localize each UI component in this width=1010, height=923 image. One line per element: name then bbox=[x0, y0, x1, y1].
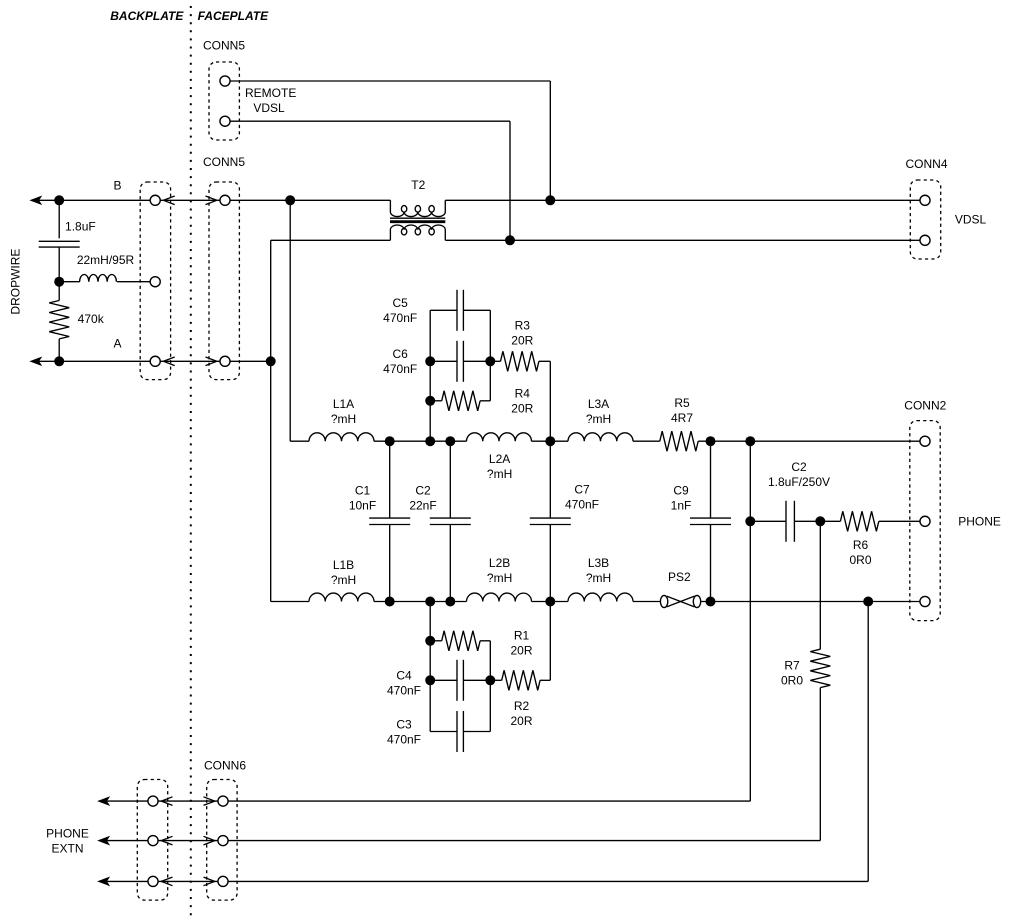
connector CONN6 backplate pin 1 bbox=[148, 796, 158, 806]
junction R1 left bbox=[425, 636, 435, 646]
wire left column of C5/C6/R4 block bbox=[429, 310, 431, 441]
svg-text:22nF: 22nF bbox=[409, 498, 436, 512]
wire L2B to L3B segment bbox=[532, 601, 569, 603]
connector CONN6 backplate pin 3 bbox=[148, 876, 158, 886]
arrow pair between CONN5 pins row B bbox=[163, 196, 174, 205]
svg-text:C5: C5 bbox=[393, 296, 409, 310]
transformer T2 core bbox=[390, 217, 445, 219]
wire C4 node to R2 bbox=[490, 679, 501, 681]
svg-text:470nF: 470nF bbox=[383, 311, 417, 325]
svg-text:L1B: L1B bbox=[333, 558, 354, 572]
wire right column of R1/C4/C3 block bbox=[489, 641, 491, 732]
wire PS2 to CONN2 pin 3 bbox=[701, 601, 921, 603]
wire CONN5 remote pin1 to node above T2 bbox=[225, 80, 550, 82]
connector CONN4 pin 1 bbox=[920, 195, 930, 205]
arrow pair between CONN6 pins row 3 bbox=[161, 877, 172, 886]
wire C2 top lead bbox=[449, 441, 451, 518]
junction dropwire cap/inductor bbox=[54, 277, 64, 287]
wire C5 left lead bbox=[430, 309, 457, 311]
connector CONN4 pin 2 bbox=[920, 235, 930, 245]
arrow pair between CONN6 pins row 1 bbox=[161, 797, 172, 806]
wire C6 node to R3 bbox=[490, 360, 500, 362]
svg-text:470nF: 470nF bbox=[387, 732, 421, 746]
wire L1B row start bbox=[271, 601, 309, 603]
connector CONN5 backplate pin middle bbox=[150, 277, 160, 287]
transformer T2 primary loops bbox=[401, 206, 406, 213]
connector CONN2 dashed box bbox=[910, 421, 940, 621]
capacitor C1 10nF bbox=[369, 517, 410, 519]
wire left column of R1/C4/C3 block bbox=[429, 602, 431, 732]
wire CONN6 top row to faceplate pin bbox=[223, 800, 750, 802]
arrow pair between CONN6 pins row 2 bbox=[161, 836, 172, 845]
svg-text:C1: C1 bbox=[355, 483, 371, 497]
svg-text:C2: C2 bbox=[415, 483, 431, 497]
capacitor C2 1.8uF/250V bbox=[785, 501, 787, 542]
svg-text:R6: R6 bbox=[853, 538, 869, 552]
capacitor C4 470nF bbox=[456, 660, 458, 701]
wire L1A to L2A segment bbox=[374, 440, 467, 442]
svg-text:L2A: L2A bbox=[489, 452, 510, 466]
wire L3A to R5 bbox=[633, 440, 660, 442]
wire CONN6 top row between pins and arrow left bbox=[106, 800, 223, 802]
svg-text:C4: C4 bbox=[396, 668, 412, 682]
svg-text:470nF: 470nF bbox=[565, 497, 599, 511]
svg-text:CONN2: CONN2 bbox=[904, 398, 946, 412]
capacitor 1.8uF (dropwire) bbox=[39, 240, 80, 242]
junction node A bbox=[266, 356, 276, 366]
junction dropwire B bbox=[54, 195, 64, 205]
svg-text:VDSL: VDSL bbox=[955, 212, 987, 226]
svg-text:10nF: 10nF bbox=[349, 498, 376, 512]
svg-text:FACEPLATE: FACEPLATE bbox=[198, 9, 269, 23]
connector CONN5 faceplate pin A bbox=[220, 356, 230, 366]
connector CONN6 faceplate pin 3 bbox=[218, 876, 228, 886]
svg-text:L3B: L3B bbox=[588, 556, 609, 570]
svg-text:470k: 470k bbox=[78, 312, 105, 326]
svg-text:20R: 20R bbox=[511, 402, 533, 416]
junction R4 left bbox=[425, 396, 435, 406]
svg-text:BACKPLATE: BACKPLATE bbox=[110, 9, 184, 23]
connector CONN5 (remote) dashed box bbox=[209, 62, 239, 140]
wire C7 bottom lead bbox=[549, 525, 551, 602]
svg-text:1.8uF/250V: 1.8uF/250V bbox=[768, 475, 830, 489]
arrow B row pointing left bbox=[31, 196, 41, 204]
wire junction to resistor 470k bbox=[58, 282, 60, 301]
svg-text:C9: C9 bbox=[673, 483, 689, 497]
capacitor C2 22nF bbox=[430, 517, 471, 519]
junction row2 C9/PS2 bbox=[706, 597, 716, 607]
svg-text:DROPWIRE: DROPWIRE bbox=[9, 249, 23, 315]
resistor R2 20R bbox=[502, 670, 540, 690]
wire L1B to L2B segment bbox=[374, 601, 467, 603]
wire C3 right lead bbox=[463, 731, 490, 733]
capacitor C6 470nF bbox=[456, 341, 458, 382]
connector CONN6 faceplate pin 1 bbox=[218, 796, 228, 806]
inductor L2A ?mH bbox=[467, 433, 532, 441]
junction row1 phone column bbox=[745, 436, 755, 446]
junction row2 C2 bbox=[445, 597, 455, 607]
wire A row from dropwire to node A junction bbox=[38, 360, 271, 362]
svg-text:R2: R2 bbox=[514, 699, 530, 713]
transformer T2 secondary loops bbox=[401, 228, 406, 235]
svg-text:VDSL: VDSL bbox=[253, 101, 285, 115]
divider between backplate and faceplate (dotted line) bbox=[190, 6, 192, 921]
svg-text:4R7: 4R7 bbox=[671, 411, 693, 425]
wire C4 left lead bbox=[430, 679, 457, 681]
wire B row from dropwire to transformer T2 bbox=[38, 199, 390, 201]
svg-text:R4: R4 bbox=[515, 387, 531, 401]
connector CONN5 faceplate dashed box bbox=[209, 182, 239, 380]
wire node B junction vertical down to L1A row bbox=[289, 200, 291, 441]
arrow A row pointing left bbox=[31, 357, 41, 365]
inductor L2B ?mH bbox=[467, 593, 532, 601]
svg-text:?mH: ?mH bbox=[331, 573, 356, 587]
inductor L3A ?mH bbox=[568, 433, 633, 441]
svg-text:EXTN: EXTN bbox=[51, 841, 83, 855]
inductor L3B ?mH bbox=[568, 593, 633, 601]
wire L1A row start bbox=[290, 440, 309, 442]
svg-text:1.8uF: 1.8uF bbox=[65, 220, 96, 234]
wire R7 column top bbox=[819, 521, 821, 649]
svg-text:B: B bbox=[113, 178, 121, 192]
transformer T2 secondary winding bbox=[390, 225, 445, 240]
junction row1 C7/R3 column bbox=[545, 436, 555, 446]
svg-text:?mH: ?mH bbox=[487, 571, 512, 585]
wire R4 right lead bbox=[480, 400, 490, 402]
junction row1 C5 column bbox=[425, 436, 435, 446]
connector CONN6 faceplate pin 2 bbox=[218, 836, 228, 846]
connector CONN5 remote pin 1 bbox=[220, 76, 230, 86]
wire R1 right lead bbox=[480, 640, 490, 642]
resistor 470k bbox=[49, 301, 69, 339]
wire R6 to CONN2 pin 2 bbox=[879, 520, 921, 522]
capacitor C5 470nF bbox=[456, 290, 458, 331]
junction row1 C9 bbox=[706, 436, 716, 446]
wire 22mH/95R branch to backplate CONN5 middle pin bbox=[59, 281, 80, 283]
svg-text:CONN6: CONN6 bbox=[204, 758, 246, 772]
svg-text:470nF: 470nF bbox=[383, 362, 417, 376]
svg-text:A: A bbox=[113, 337, 121, 351]
wire C2 1.8uF right lead to R6 bbox=[794, 520, 840, 522]
svg-text:C7: C7 bbox=[574, 482, 590, 496]
wire node A column vertical down to L1B row bbox=[270, 240, 272, 601]
resistor R6 0R0 bbox=[840, 511, 878, 531]
svg-text:?mH: ?mH bbox=[487, 467, 512, 481]
wire capacitor 1.8uF to junction bbox=[58, 247, 60, 282]
svg-text:CONN5: CONN5 bbox=[203, 39, 245, 53]
connector CONN5 faceplate pin B bbox=[220, 195, 230, 205]
wire C5 right lead bbox=[463, 309, 490, 311]
wire C3 left lead bbox=[430, 731, 457, 733]
connector CONN2 pin 1 bbox=[920, 436, 930, 446]
svg-text:?mH: ?mH bbox=[586, 412, 611, 426]
svg-text:20R: 20R bbox=[510, 643, 532, 657]
junction C6 left bbox=[425, 356, 435, 366]
svg-text:0R0: 0R0 bbox=[781, 673, 803, 687]
wire right column of C5/C6/R4 block bbox=[489, 310, 491, 401]
wire C2 1.8uF left lead bbox=[750, 520, 786, 522]
transformer T2 primary winding bbox=[390, 200, 445, 216]
svg-text:0R0: 0R0 bbox=[849, 553, 871, 567]
svg-text:20R: 20R bbox=[511, 333, 533, 347]
wire C2 bottom lead bbox=[449, 525, 451, 602]
svg-text:T2: T2 bbox=[411, 178, 425, 192]
wire R4 left lead bbox=[430, 400, 442, 402]
resistor R1 20R bbox=[442, 631, 480, 651]
svg-text:CONN5: CONN5 bbox=[203, 155, 245, 169]
junction C4 left bbox=[425, 675, 435, 685]
arrow pair between CONN5 pins row A bbox=[163, 357, 174, 366]
wire R1 left lead bbox=[430, 640, 442, 642]
wire column from row1 through C2/R6 node down to CONN6 top row bbox=[749, 441, 751, 801]
connector CONN6 faceplate dashed box bbox=[207, 780, 237, 901]
svg-text:R7: R7 bbox=[784, 658, 800, 672]
wire CONN5 remote pin2 to node above VDSL lower wire bbox=[225, 120, 510, 122]
junction row1 C2 bbox=[445, 436, 455, 446]
junction row2 C7/R2 column bbox=[545, 597, 555, 607]
surge protector PS2 bbox=[660, 595, 667, 607]
connector CONN2 pin 2 bbox=[920, 516, 930, 526]
connector CONN5 remote pin 2 bbox=[220, 116, 230, 126]
wire C6 left lead bbox=[430, 360, 457, 362]
svg-text:C6: C6 bbox=[393, 347, 409, 361]
svg-text:L3A: L3A bbox=[588, 397, 609, 411]
wire column from row2 down to CONN6 bottom row bbox=[867, 602, 869, 882]
resistor R5 4R7 bbox=[660, 431, 698, 451]
junction mid row phone column bbox=[745, 516, 755, 526]
connector CONN6 backplate dashed box bbox=[137, 780, 167, 901]
wire resistor 470k to A row bbox=[58, 339, 60, 361]
svg-text:C3: C3 bbox=[396, 717, 412, 731]
wire C6 right lead bbox=[463, 360, 490, 362]
svg-text:C2: C2 bbox=[791, 460, 807, 474]
junction row2 C4 column bbox=[425, 597, 435, 607]
inductor 22mH/95R bbox=[80, 275, 117, 282]
connector CONN2 pin 3 bbox=[920, 596, 930, 606]
resistor R7 0R0 bbox=[810, 649, 830, 687]
wire R3 to column at 550 bbox=[539, 360, 550, 362]
junction T2 top right / remote vdsl bbox=[545, 195, 555, 205]
wire L2A to L3A segment bbox=[532, 440, 569, 442]
wire CONN6 middle row between pins and arrow left bbox=[106, 840, 223, 842]
svg-text:?mH: ?mH bbox=[331, 412, 356, 426]
wire B row from T2 to CONN4 pin 1 bbox=[445, 199, 921, 201]
wire R2 to column at 550 bbox=[540, 679, 550, 681]
svg-text:PS2: PS2 bbox=[668, 570, 691, 584]
wire T2 secondary to node A column bbox=[271, 239, 391, 241]
wire C1 top lead bbox=[389, 441, 391, 518]
inductor L1B ?mH bbox=[309, 593, 374, 601]
wire CONN6 bottom row between pins and arrow left bbox=[106, 880, 223, 882]
wire C7 top lead bbox=[549, 441, 551, 518]
svg-text:L1A: L1A bbox=[333, 397, 354, 411]
svg-text:REMOTE: REMOTE bbox=[245, 86, 296, 100]
connector CONN6 backplate pin 2 bbox=[148, 836, 158, 846]
resistor R3 20R bbox=[501, 351, 539, 371]
junction node B bbox=[285, 195, 295, 205]
wire R5 to CONN2 pin 1 bbox=[698, 440, 921, 442]
capacitor C7 470nF bbox=[530, 517, 571, 519]
wire VDSL lower row from T2 to CONN4 pin 2 bbox=[445, 239, 921, 241]
svg-text:L2B: L2B bbox=[489, 556, 510, 570]
svg-text:PHONE: PHONE bbox=[958, 515, 1001, 529]
svg-text:R5: R5 bbox=[674, 396, 690, 410]
resistor R4 20R bbox=[442, 391, 480, 411]
connector CONN5 backplate pin A bbox=[150, 356, 160, 366]
svg-text:R3: R3 bbox=[515, 318, 531, 332]
inductor L1A ?mH bbox=[309, 433, 374, 441]
capacitor C3 470nF bbox=[456, 711, 458, 752]
wire C9 bottom lead bbox=[710, 525, 712, 602]
capacitor C9 1nF bbox=[690, 517, 731, 519]
svg-text:470nF: 470nF bbox=[387, 683, 421, 697]
wire R7 column down to CONN6 middle row bbox=[819, 688, 821, 841]
junction row2 C1 bbox=[385, 597, 395, 607]
svg-text:R1: R1 bbox=[514, 628, 530, 642]
junction row2 phone extn column bbox=[863, 597, 873, 607]
wire L3B to PS2 bbox=[633, 601, 660, 603]
connector CONN4 dashed box bbox=[910, 180, 940, 259]
connector CONN5 backplate pin B bbox=[150, 195, 160, 205]
wire C9 top lead bbox=[710, 441, 712, 518]
svg-text:1nF: 1nF bbox=[671, 498, 692, 512]
junction row1 C1 bbox=[385, 436, 395, 446]
junction C4 right bbox=[485, 675, 495, 685]
svg-text:?mH: ?mH bbox=[586, 571, 611, 585]
wire C1 bottom lead bbox=[389, 525, 391, 602]
junction mid row R7 column bbox=[815, 516, 825, 526]
svg-text:CONN4: CONN4 bbox=[905, 157, 947, 171]
connector CONN5 backplate dashed box bbox=[140, 182, 170, 380]
wire dropwire vertical from B bbox=[58, 200, 60, 238]
svg-text:22mH/95R: 22mH/95R bbox=[77, 253, 135, 267]
junction T2 bottom / remote vdsl bbox=[505, 235, 515, 245]
svg-text:PHONE: PHONE bbox=[46, 826, 89, 840]
svg-text:20R: 20R bbox=[510, 714, 532, 728]
wire C4 right lead bbox=[463, 679, 490, 681]
junction C6 right bbox=[485, 356, 495, 366]
junction dropwire A bbox=[54, 356, 64, 366]
